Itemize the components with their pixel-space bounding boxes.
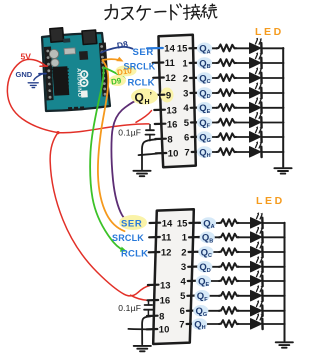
ground (U2 / C2) [134, 346, 151, 351]
resistor R2 [217, 59, 237, 66]
U2 left pin 14 [150, 222, 161, 225]
svg-text:Q: Q [199, 73, 206, 84]
node QE (U2 pin 4) wire [197, 280, 285, 282]
svg-text:D9: D9 [110, 76, 122, 86]
ground (Arduino GND pin) [28, 74, 46, 88]
LED D9 [251, 212, 263, 228]
label QC (U1) [197, 72, 212, 84]
svg-text:RCLK: RCLK [128, 78, 155, 89]
resistor R9 [219, 219, 239, 226]
svg-text:Q: Q [197, 291, 204, 302]
svg-text:2: 2 [183, 73, 188, 84]
label QE (U2) [196, 275, 211, 287]
svg-text:RCLK: RCLK [121, 248, 148, 259]
LED D12 [251, 256, 263, 272]
svg-text:Q: Q [199, 147, 206, 158]
wire 5V junction down to U2 pins 13 and 16 [50, 133, 149, 296]
resistor R7 [217, 133, 237, 140]
LED D8 [250, 141, 262, 157]
svg-text:Q: Q [199, 103, 206, 114]
node QG (U1 pin 6) wire [198, 136, 284, 138]
U2 right pin 6 [187, 309, 198, 311]
svg-text:C: C [208, 253, 212, 259]
resistor R10 [219, 234, 239, 241]
node QG (U2 pin 6) wire [196, 310, 285, 312]
svg-text:E: E [206, 282, 210, 288]
shift register U1 (top 74HC595) body [159, 35, 196, 167]
svg-text:B: B [209, 239, 213, 245]
U1 left pin 12 [153, 76, 164, 79]
node QF (U1 pin 5) wire [198, 122, 284, 124]
svg-text:14: 14 [164, 44, 175, 55]
U2 right pin 15 [189, 222, 200, 225]
node QH (U1 pin 7) wire [198, 151, 284, 153]
resistor R14 [219, 292, 239, 299]
svg-text:Q: Q [199, 88, 206, 99]
LED D13 [251, 270, 263, 286]
label QA (U2) [201, 217, 216, 229]
svg-text:10: 10 [168, 149, 179, 160]
wire 5V: Arduino 5V pin arc to junction [7, 59, 151, 300]
svg-text:E: E [207, 109, 211, 115]
U1 right pin 2 [190, 77, 201, 80]
node QA (U2 pin 15) wire [198, 222, 285, 224]
svg-text:H: H [207, 153, 211, 159]
svg-text:15: 15 [177, 218, 188, 229]
wire D8 to U1 SER (pin 14) [101, 47, 133, 53]
svg-text:14: 14 [162, 218, 173, 229]
U1 left pin 9 [154, 94, 165, 97]
svg-text:Q: Q [135, 91, 144, 105]
capacitor C2 0.1uF (U2 pin16 to gnd) [144, 301, 153, 317]
U1 left pin 16 [155, 123, 166, 126]
svg-text:A: A [207, 50, 211, 56]
svg-text:5: 5 [180, 291, 186, 302]
svg-text:SRCLK: SRCLK [112, 233, 144, 243]
resistor R3 [217, 74, 237, 81]
svg-text:4: 4 [183, 103, 189, 114]
LED D15 [251, 300, 263, 316]
wire QH' : U1 pin 9 cascade to U2 SER (pin 14) [111, 96, 146, 224]
svg-text:D: D [207, 94, 211, 100]
U1 right pin 3 [190, 92, 201, 95]
svg-text:LED: LED [256, 195, 285, 207]
node: 5V junction [56, 131, 59, 134]
svg-text:12: 12 [165, 73, 176, 84]
svg-text:1: 1 [182, 233, 188, 244]
ground (top LED bus) [274, 168, 291, 173]
U1 right pin 6 [191, 136, 202, 139]
svg-text:7: 7 [179, 319, 184, 330]
LED D3 [250, 67, 262, 83]
LED cathode bus (bottom block) [284, 223, 286, 341]
U2 right pin 3 [188, 265, 199, 267]
node QE (U1 pin 4) wire [198, 107, 284, 109]
node QB (U1 pin 1) wire [198, 62, 284, 64]
U2 left pin 12 [149, 251, 160, 254]
svg-text:H: H [202, 325, 206, 331]
U2 left pin 11 [149, 236, 160, 239]
svg-text:Q: Q [203, 218, 210, 229]
label D10 highlight [116, 65, 137, 76]
U2 left pin 10 [147, 328, 158, 330]
wire 5V junction to U1 pins 13 and 16 [58, 124, 149, 133]
svg-text:Q: Q [196, 306, 203, 317]
wire U2 pin 8 and pin 10 to ground [128, 316, 151, 344]
U2 left pin 8 [147, 315, 158, 317]
node QA (U1 pin 15) wire [198, 47, 284, 49]
label QH (U2) [192, 318, 207, 330]
label QE (U1) [197, 102, 212, 114]
svg-text:’: ’ [150, 91, 153, 101]
svg-text:Q: Q [199, 262, 206, 273]
svg-text:Q: Q [199, 44, 206, 55]
LED D16 [251, 313, 263, 329]
LED D1 [250, 38, 262, 54]
label QH (U1) [197, 146, 212, 158]
label QF (U2) [195, 290, 210, 302]
svg-text:1: 1 [182, 58, 188, 69]
svg-text:Q: Q [199, 58, 206, 69]
capacitor C1 0.1uF (U1 pin16 to gnd) [146, 125, 155, 141]
svg-text:0.1µF: 0.1µF [118, 127, 141, 137]
label QG (U1) [197, 131, 212, 143]
LED D14 [251, 285, 263, 301]
resistor R15 [219, 307, 239, 314]
resistor R6 [217, 119, 237, 126]
svg-text:8: 8 [159, 311, 164, 322]
svg-text:8: 8 [167, 134, 172, 145]
resistor R16 [219, 320, 239, 327]
svg-text:GND: GND [16, 70, 33, 79]
U1 left pin 13 [154, 109, 165, 112]
LED D4 [250, 82, 262, 98]
label QD (U2) [197, 261, 212, 273]
svg-text:Q: Q [202, 233, 209, 244]
LED cathode bus (top block) [282, 48, 284, 167]
svg-text:LED: LED [255, 26, 284, 38]
node QD (U1 pin 3) wire [198, 92, 284, 94]
svg-text:C: C [207, 79, 211, 85]
U2 right pin 5 [187, 294, 198, 296]
U2 left pin 13 [148, 284, 159, 286]
U1 right pin 4 [191, 106, 202, 109]
resistor R5 [217, 104, 237, 111]
svg-text:SER: SER [121, 219, 142, 230]
svg-text:0.1µF: 0.1µF [118, 303, 141, 313]
wire D9 to U1 RCLK (pin 12), arrow end [90, 68, 126, 252]
svg-text:5: 5 [184, 118, 190, 129]
svg-text:2: 2 [181, 247, 186, 258]
U1 left pin 10 [156, 152, 167, 155]
wire U1 pin 8 and pin 10 to ground [139, 139, 158, 169]
LED D7 [250, 126, 262, 142]
node QH (U2 pin 7) wire [195, 323, 284, 325]
LED D5 [250, 97, 262, 113]
LED D2 [250, 52, 262, 68]
svg-text:16: 16 [160, 296, 171, 307]
U1 left pin 11 [153, 61, 164, 63]
resistor R11 [219, 248, 239, 255]
label QC (U2) [198, 246, 213, 258]
resistor R8 [217, 148, 237, 155]
U2 right pin 4 [188, 280, 199, 282]
resistor R4 [217, 89, 237, 96]
label QB (U1) [197, 57, 212, 69]
U1 pin 9 highlight (yellow) [161, 88, 174, 103]
label QB (U2) [200, 232, 215, 244]
svg-text:A: A [211, 224, 215, 230]
U1 right pin 7 [192, 151, 203, 154]
svg-text:Q: Q [199, 132, 206, 143]
svg-text:Q: Q [199, 118, 206, 129]
ground (U1 / C1) [133, 171, 150, 176]
svg-text:6: 6 [180, 306, 185, 317]
U2 right pin 2 [189, 251, 200, 254]
shift register U2 (bottom 74HC595) body [153, 209, 194, 344]
label QA (U1) [197, 43, 212, 55]
svg-text:Q: Q [201, 247, 208, 258]
U1 right pin 5 [191, 121, 202, 124]
svg-text:4: 4 [181, 276, 187, 287]
svg-text:G: G [203, 312, 207, 318]
label QH' (U1 pin 9, highlighted) [131, 89, 158, 105]
LED D11 [251, 241, 263, 257]
label QD (U1) [197, 87, 212, 99]
U1 left pin 14 [147, 47, 163, 49]
U1 right pin 15 [189, 47, 200, 49]
U1 right pin 1 [190, 62, 201, 64]
svg-text:16: 16 [167, 119, 178, 130]
LED D10 [251, 227, 263, 243]
resistor R12 [219, 263, 239, 270]
resistor R13 [219, 277, 239, 284]
svg-text:3: 3 [183, 88, 188, 99]
svg-text:10: 10 [159, 325, 170, 336]
svg-text:11: 11 [161, 233, 172, 244]
Arduino board A1 [42, 28, 110, 111]
label QF (U1) [197, 117, 212, 129]
svg-text:SER: SER [133, 47, 154, 58]
wire D9 down to U2 RCLK (pin 12), arrow end [90, 68, 120, 249]
svg-text:15: 15 [177, 44, 188, 55]
resistor R1 [217, 45, 237, 52]
svg-text:D8: D8 [116, 39, 129, 51]
svg-text:13: 13 [166, 105, 177, 116]
label D9 highlight [109, 75, 126, 86]
U1 left pin 8 [155, 138, 166, 141]
svg-text:13: 13 [160, 280, 171, 291]
node QF (U2 pin 5) wire [196, 295, 285, 297]
wire D10 down to U2 SRCLK (pin 11) [98, 61, 125, 232]
svg-text:Q: Q [194, 319, 201, 330]
label QG (U2) [193, 305, 208, 317]
LED D6 [250, 112, 262, 128]
svg-text:G: G [207, 138, 211, 144]
svg-text:6: 6 [184, 132, 189, 143]
U2 right pin 1 [189, 236, 200, 239]
svg-text:7: 7 [184, 147, 189, 158]
svg-text:3: 3 [181, 262, 186, 273]
U2 left pin 16 [148, 299, 159, 301]
node QD (U2 pin 3) wire [197, 266, 285, 268]
wire D10 to U1 SRCLK (pin 11), arrow end [98, 57, 125, 231]
node QC (U2 pin 2) wire [197, 251, 284, 253]
svg-text:D: D [207, 268, 211, 274]
svg-text:9: 9 [166, 90, 171, 101]
ground (bottom LED bus) [276, 342, 293, 347]
label SER (U2 pin 14, highlighted) [119, 215, 147, 230]
svg-text:12: 12 [161, 248, 172, 259]
title text: katakana/kanji "カスケード接続" (cascade connection) [105, 4, 217, 20]
svg-text:B: B [207, 64, 211, 70]
U2 right pin 7 [187, 323, 198, 325]
node QB (U2 pin 1) wire [198, 236, 285, 238]
svg-text:11: 11 [165, 58, 176, 69]
svg-text:Q: Q [198, 276, 205, 287]
node QC (U1 pin 2) wire [198, 77, 284, 79]
